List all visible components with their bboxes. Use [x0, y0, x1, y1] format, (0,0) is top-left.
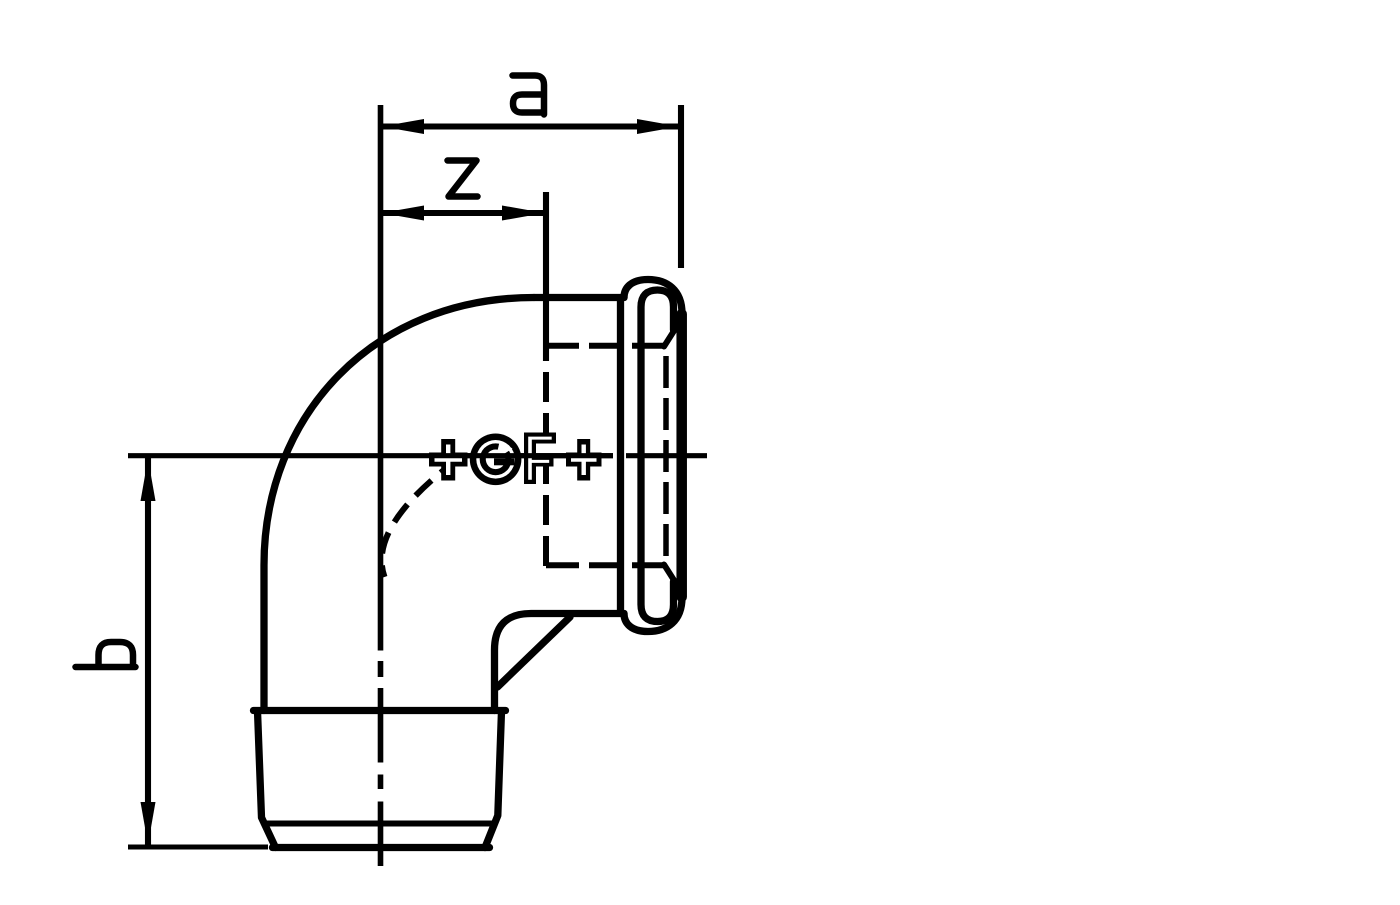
- outline: rib diagonal in elbow crotch: [498, 617, 571, 687]
- arrowhead: b top: [141, 459, 156, 502]
- outline: outer elbow arc and left side of male neck: [264, 298, 534, 711]
- hidden line: female thread bottom edge: [546, 562, 665, 568]
- outline: male thread chamfer start line: [266, 821, 494, 827]
- dimension b: line with arrowheads: [145, 458, 151, 845]
- dimension a: line with arrowheads: [383, 123, 678, 129]
- logo G white annulus: [476, 440, 515, 479]
- label b (rotated): [76, 642, 136, 667]
- outline: socket top body line: [534, 294, 624, 301]
- hidden line: thread runout near socket face: [663, 356, 669, 556]
- outline: socket bottom body line, crotch corner, right side of male neck: [495, 614, 625, 711]
- outline: bead inner profile: [641, 290, 674, 622]
- outline: bead top outer curve: [624, 280, 682, 314]
- extension line: bottom of dimension b: [128, 845, 268, 850]
- outline: male thread right flank and chamfer: [485, 711, 502, 848]
- outline: bead bottom outer curve: [624, 598, 682, 632]
- logo plus 1 white channel: [435, 445, 463, 476]
- outline: male thread shoulder: [254, 707, 506, 714]
- outline: socket end face: [676, 314, 687, 597]
- extension line: z dimension / thread end: [543, 192, 549, 361]
- logo plus 1 silhouette: [429, 439, 468, 481]
- arrowhead: a right: [637, 119, 680, 134]
- arrowhead: z left: [382, 206, 425, 221]
- hidden line: female thread top edge: [546, 343, 665, 349]
- extension line: right side of dimension a: [678, 105, 684, 268]
- centerline: vertical axis of male end (also extension line for a and z): [378, 105, 384, 866]
- logo G outer disc: [470, 434, 522, 486]
- logo plus 2 white channel: [571, 445, 597, 476]
- outline: band step line of socket bead: [617, 301, 624, 610]
- logo G opening wedge: [496, 442, 513, 460]
- dimension z: line with arrowheads: [383, 210, 543, 216]
- outline: male thread left flank and chamfer: [258, 711, 276, 848]
- label z: [448, 161, 478, 197]
- arrowhead: b bottom: [141, 802, 156, 845]
- logo F white channels: [528, 437, 552, 480]
- arrowhead: z right: [502, 206, 545, 221]
- outline: male thread bottom face: [273, 844, 490, 851]
- logo G white core: [486, 450, 506, 470]
- arrowhead: a left: [382, 119, 425, 134]
- hidden line: female thread end (left edge of thread box): [543, 372, 549, 566]
- logo +GF+: [429, 433, 602, 486]
- logo G crossbar: [494, 458, 515, 465]
- label a: [513, 76, 545, 115]
- centerline: horizontal axis of female socket: [128, 453, 707, 458]
- centerline through logo: [429, 453, 613, 458]
- hidden line: inner bore arc of elbow: [382, 459, 458, 577]
- logo plus 2 silhouette: [566, 439, 602, 481]
- outline: bottom thread chamfer diagonal: [664, 565, 675, 582]
- outline: top thread chamfer diagonal: [664, 330, 675, 347]
- logo F silhouette: [524, 433, 556, 485]
- logo G stroke disc: [480, 443, 512, 475]
